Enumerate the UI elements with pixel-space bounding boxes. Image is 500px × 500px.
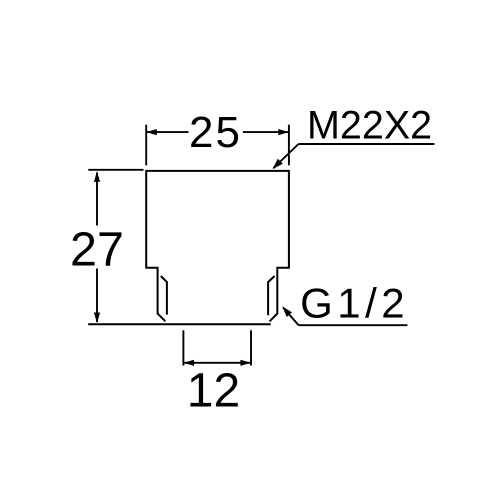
dim 27: top extension line	[88, 169, 143, 171]
dim 27: dimension line top part	[96, 173, 98, 226]
svg-text:12: 12	[187, 364, 240, 417]
dim 27: bottom arrowhead	[94, 313, 100, 324]
dim 25: left extension line	[145, 125, 147, 166]
svg-text:M22X2: M22X2	[307, 103, 432, 147]
right thread inner line	[268, 276, 275, 315]
dim 25: dimension line right part	[243, 131, 289, 133]
dim 12: left arrowhead	[183, 360, 194, 366]
dim 27: top arrowhead	[94, 171, 100, 182]
svg-text:25: 25	[189, 108, 242, 157]
label G1/2: leader diagonal	[283, 308, 298, 326]
bottom face line + left extension of 27 dimension	[88, 323, 271, 325]
dim 27: dimension line bottom part	[96, 269, 98, 323]
dim 25: right arrowhead	[278, 129, 289, 135]
dim 12: left extension line	[182, 330, 184, 365]
body outline (adapter profile: head, steps, threaded shank with chamfers)	[146, 171, 289, 322]
left thread inner line	[161, 276, 167, 315]
label M22X2: underline	[299, 143, 435, 145]
dim 12: right extension line	[250, 330, 252, 365]
dim 25: right extension line	[288, 125, 290, 166]
svg-text:G1/2: G1/2	[300, 279, 409, 326]
label M22X2: leader diagonal	[274, 144, 299, 168]
dim 12: dimension line	[183, 362, 251, 364]
svg-text:27: 27	[70, 222, 124, 276]
label G1/2: leader arrowhead	[282, 306, 292, 317]
dim 12: right arrowhead	[240, 360, 251, 366]
label G1/2: underline	[299, 324, 408, 326]
dim 25: dimension line left part	[146, 131, 188, 133]
label M22X2: leader arrowhead	[273, 159, 283, 169]
dim 25: left arrowhead	[146, 129, 157, 135]
